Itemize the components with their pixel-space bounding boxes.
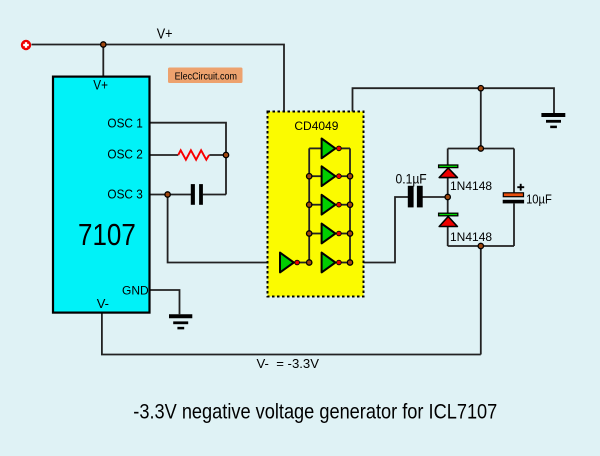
svg-text:-3.3V negative voltage generat: -3.3V negative voltage generator for ICL… xyxy=(133,400,497,424)
svg-text:10µF: 10µF xyxy=(526,191,552,206)
svg-text:ElecCircuit.com: ElecCircuit.com xyxy=(175,71,237,82)
svg-text:0.1µF: 0.1µF xyxy=(396,172,427,187)
svg-text:7107: 7107 xyxy=(78,217,136,252)
svg-text:V- = -3.3V: V- = -3.3V xyxy=(257,356,320,371)
svg-text:OSC 1: OSC 1 xyxy=(107,116,142,130)
svg-text:V+: V+ xyxy=(93,78,108,93)
svg-text:OSC 3: OSC 3 xyxy=(107,187,142,201)
svg-text:GND: GND xyxy=(122,283,149,297)
svg-text:V-: V- xyxy=(97,296,109,311)
svg-text:CD4049: CD4049 xyxy=(294,119,338,133)
svg-text:V+: V+ xyxy=(157,26,173,43)
svg-text:1N4148: 1N4148 xyxy=(450,230,492,244)
svg-text:OSC 2: OSC 2 xyxy=(107,148,142,162)
svg-text:1N4148: 1N4148 xyxy=(450,179,492,193)
